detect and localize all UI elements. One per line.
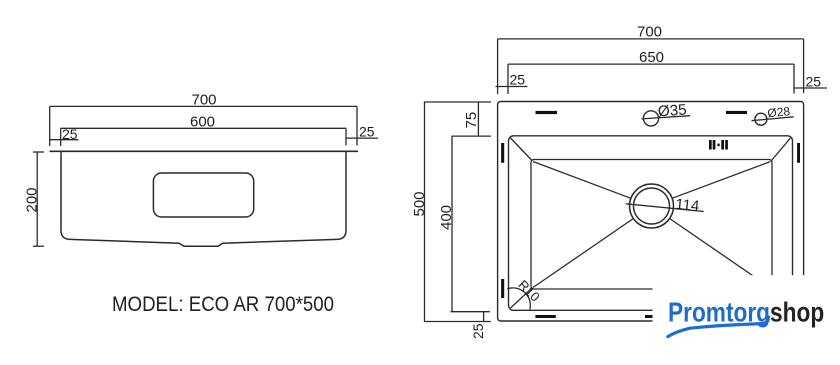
left view: dimension 700 line [50, 106, 357, 146]
top view: dimension 700 line [498, 39, 804, 94]
top view: extension line at rect top [424, 101, 491, 103]
top view: rim slot dash bottom-center [645, 315, 665, 318]
svg-text:75: 75 [463, 112, 480, 129]
top view: dimension 400 line [451, 136, 453, 312]
svg-text:25: 25 [62, 126, 78, 142]
left view: sink rim line [50, 150, 359, 152]
top view: bowl rounded rectangle [509, 136, 793, 310]
top view: leader line for D35 [641, 116, 690, 119]
top view: bowl bottom rounded rectangle [531, 160, 772, 290]
svg-text:700: 700 [637, 24, 662, 41]
left view: dimension 200 line [33, 152, 44, 246]
left view: dimension 25 left line [50, 139, 79, 141]
top view: X diagonal from top-left [533, 162, 631, 199]
top view: hole circle 28 [755, 113, 767, 125]
logo white background box [653, 275, 840, 365]
top view: corner slope line top-left [511, 138, 533, 161]
top view: mounting clip right upper [797, 143, 800, 163]
top view: corner slope line bottom-right [772, 288, 791, 308]
top view: drain inner circle [634, 188, 670, 224]
top view: corner slope line bottom-left [511, 288, 533, 308]
top view: R10 leader arc [507, 288, 530, 310]
top view: corner slope line top-right [772, 138, 791, 161]
logo text Promtorgshop [668, 297, 824, 328]
top view: rim slot dash bottom-left [535, 315, 555, 318]
top view: dimension 25 top-right line [794, 87, 827, 89]
top view: mounting clip left upper [501, 143, 504, 163]
top view: rim slot dash top-left [536, 111, 558, 114]
svg-text:114: 114 [675, 196, 700, 215]
top view: extension line at bowl top [452, 135, 491, 137]
top view: dimension 75 line [477, 102, 479, 136]
svg-text:25: 25 [510, 72, 526, 88]
top view: rim slot dash top-right [726, 111, 747, 114]
top view: outer rim rectangle [498, 102, 804, 322]
top view: leader line 114 [626, 204, 704, 212]
svg-text:MODEL: ECO AR 700*500: MODEL: ECO AR 700*500 [112, 293, 334, 316]
svg-text:700: 700 [192, 92, 217, 109]
svg-text:200: 200 [24, 187, 41, 212]
top view: X diagonal from bottom-right [670, 219, 770, 288]
logo swoosh [668, 317, 769, 337]
top view: extension line at bowl bottom [451, 311, 490, 313]
svg-text:500: 500 [411, 191, 428, 216]
top view: X diagonal from top-right [672, 162, 770, 199]
svg-text:650: 650 [639, 49, 664, 66]
top view: X diagonal from bottom-left [533, 219, 633, 288]
top view: faucet hole circle 35 [643, 111, 658, 126]
top view: dimension 500 line [424, 102, 426, 322]
top view: leader line for D28 [752, 117, 794, 121]
top view: mounting clip right lower [797, 279, 800, 298]
left view: dimension 25 right line [346, 137, 378, 139]
top view: mounting clip left lower [501, 279, 504, 298]
left view: sink body outline [61, 152, 346, 246]
svg-text:Ø35: Ø35 [657, 101, 687, 120]
top view: extension line at rect bottom [424, 321, 491, 323]
svg-text:400: 400 [438, 205, 455, 230]
top view: dimension 650 line [508, 64, 794, 94]
left view: dimension 600 line [61, 128, 346, 146]
top view: drain outer circle [630, 184, 674, 228]
left view: inner bottom rounded rectangle [153, 173, 253, 217]
svg-text:Ø28: Ø28 [767, 104, 791, 120]
top view: dimension 25 bottom line [483, 312, 485, 322]
svg-text:25: 25 [359, 124, 375, 140]
svg-text:600: 600 [190, 114, 215, 131]
top view: dimension 25 top-left line [496, 86, 528, 88]
top view: overflow icon [709, 140, 728, 150]
svg-text:25: 25 [806, 74, 822, 90]
svg-text:25: 25 [470, 323, 486, 339]
